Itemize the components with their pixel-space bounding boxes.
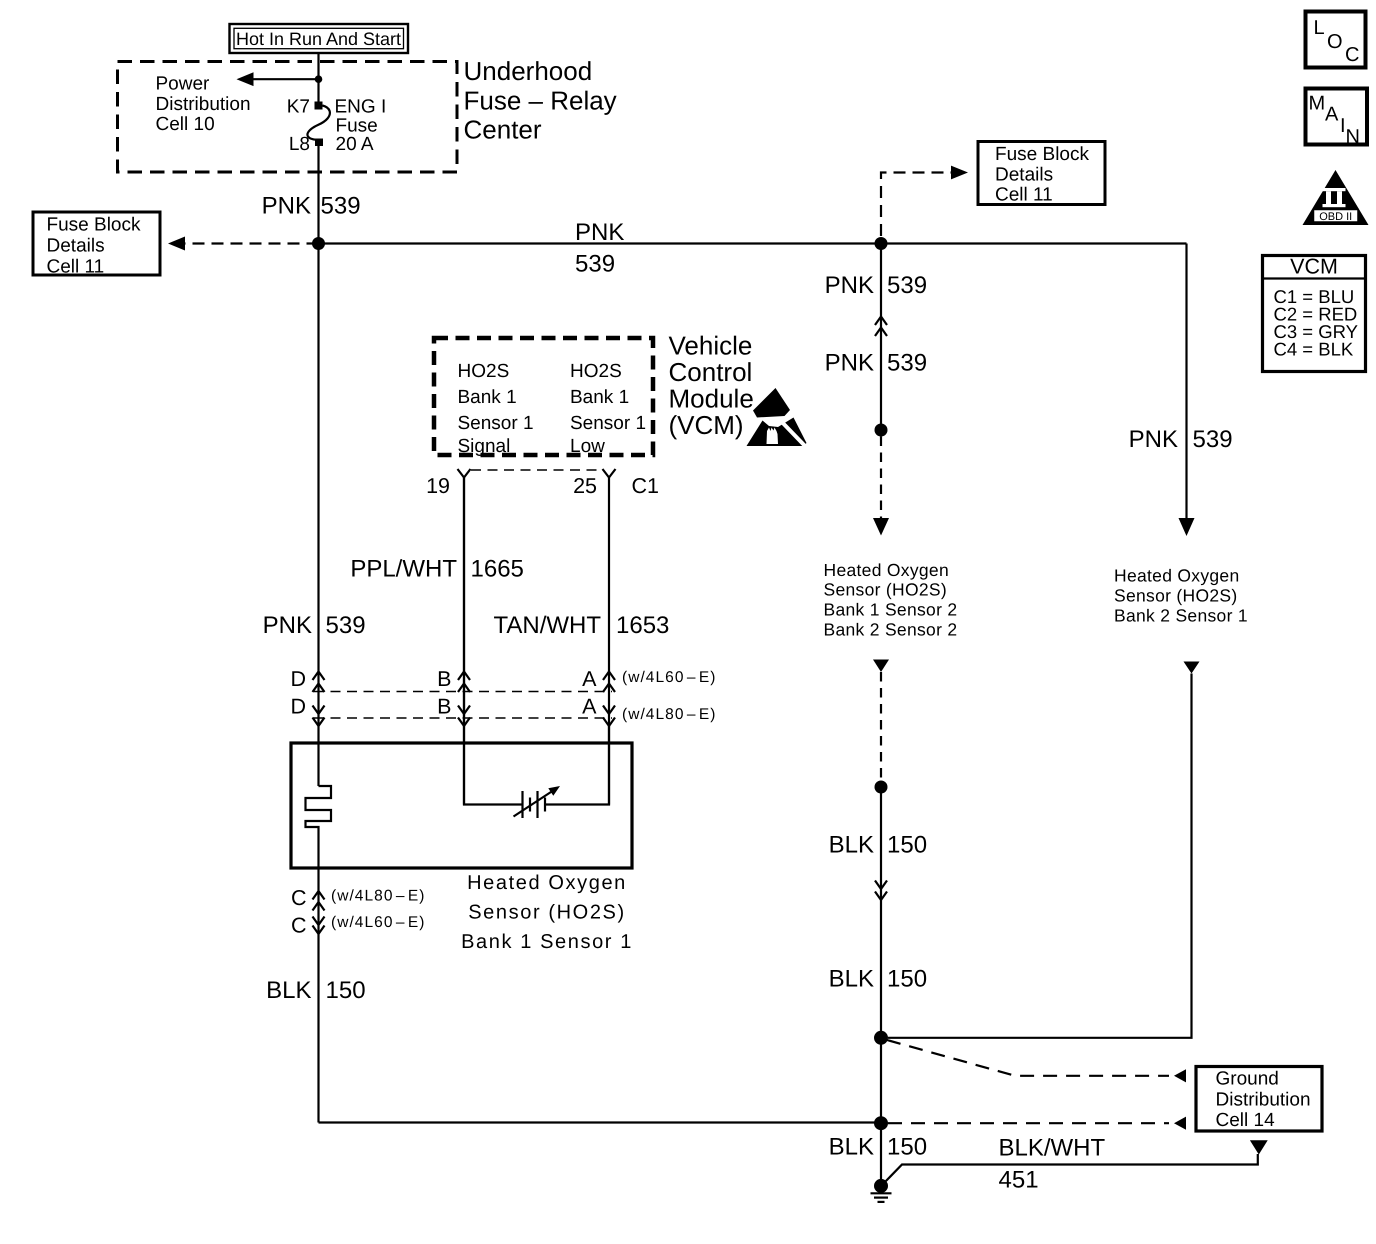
svg-text:Underhood: Underhood [464,56,593,86]
label: Power Distribution Cell 10 [156,74,251,136]
svg-text:C: C [291,914,307,938]
wire: PNK 539 mid drop [880,244,882,431]
label: VCM pin functions column 1 [458,361,534,457]
svg-text:Fuse Block: Fuse Block [47,214,141,235]
svg-text:Low: Low [570,436,605,457]
svg-text:L: L [1314,17,1327,39]
connector pin A (4L60) [603,672,615,693]
label: BLK 150 (left wire) [266,977,365,1004]
svg-text:L8: L8 [289,134,310,155]
svg-text:Heated Oxygen: Heated Oxygen [1114,566,1240,586]
wire: dashed to Ground Distribution (upper) [887,1040,1169,1076]
label: Heated Oxygen Sensor (HO2S) Bank 1 Sensor 2 Bank 2 Sensor 2 [824,560,958,640]
svg-text:Hot In Run And Start: Hot In Run And Start [236,29,401,49]
svg-text:Module: Module [669,384,754,414]
label: PPL/WHT 1665 [350,556,524,583]
inline connector on BLK run [875,881,887,901]
svg-text:Details: Details [995,165,1053,186]
svg-text:Bank 1: Bank 1 [570,387,629,408]
svg-text:539: 539 [1193,426,1233,453]
svg-text:Signal: Signal [458,436,511,457]
wire: dashed drop to HO2S bank1 sensor2 [880,437,882,520]
wire: HO2S ground lead down [317,868,319,1123]
label: Vehicle Control Module (VCM) [669,331,754,441]
svg-text:TAN/WHT: TAN/WHT [493,612,601,639]
svg-text:Sensor (HO2S): Sensor (HO2S) [1114,586,1238,606]
svg-text:PNK: PNK [263,612,312,639]
connector pin B (4L60) [458,672,470,693]
svg-text:C1: C1 [632,474,659,498]
svg-text:PNK: PNK [262,192,311,219]
svg-text:BLK: BLK [266,977,311,1004]
wire: dashed arrow to left Fuse Block Details [184,242,319,244]
box: HO2S Bank 1 Sensor 1 [291,743,632,868]
svg-text:PNK: PNK [1129,426,1178,453]
wire: dashed from sensor to BLK 150 [873,660,889,673]
svg-text:OBD II: OBD II [1319,211,1352,223]
node: junction left [312,237,325,250]
wire: fuse output down to main junction [317,146,319,244]
svg-text:PPL/WHT: PPL/WHT [350,556,457,583]
label: PNK 539 (left wire) [263,612,366,639]
svg-text:C: C [1345,44,1361,66]
svg-text:B: B [437,667,451,691]
wire: BLK 150 mid run [880,787,882,1038]
svg-text:Heated Oxygen: Heated Oxygen [467,872,627,894]
svg-text:Sensor (HO2S): Sensor (HO2S) [824,580,948,600]
connector pin B (4L80) [458,706,470,727]
connector row w/4L60-E dashed face [314,691,612,693]
svg-text:Sensor 1: Sensor 1 [458,413,534,434]
svg-text:150: 150 [887,832,927,859]
svg-text:(w/4L60 – E): (w/4L60 – E) [622,669,716,686]
svg-text:PNK: PNK [575,219,624,246]
label: VCM pin functions column 2 [570,361,646,457]
pin 25 connector fork [603,469,616,478]
svg-text:HO2S: HO2S [458,361,510,382]
svg-text:Cell 11: Cell 11 [995,185,1053,206]
svg-text:150: 150 [887,1134,927,1161]
svg-text:PNK: PNK [825,350,874,377]
wire: PNK 539 right drop [1185,244,1187,519]
label: Heated Oxygen Sensor (HO2S) Bank 1 Sensor 1 [461,872,633,953]
wire: arrow branch to Power Distribution [252,78,319,80]
legend: VCM connector colors [1263,255,1366,372]
connector pin D (4L60) [313,672,325,693]
label: BLK 150 (mid 1) [829,832,927,859]
fuse ENG I 20A (element curve) [307,106,329,140]
svg-text:25: 25 [573,474,597,498]
wire: dashed to Ground Distribution (lower) [888,1122,1169,1124]
svg-text:D: D [290,695,306,719]
label: Heated Oxygen Sensor (HO2S) Bank 2 Sensor 1 [1114,566,1248,626]
icon: OBD II triangle [1303,170,1369,225]
svg-text:451: 451 [999,1167,1039,1194]
svg-text:N: N [1346,126,1362,148]
label: PNK 539 (right) [1129,426,1233,453]
svg-text:PNK: PNK [825,272,874,299]
svg-text:BLK: BLK [829,832,874,859]
svg-text:Sensor 1: Sensor 1 [570,413,646,434]
svg-text:Cell 14: Cell 14 [1216,1110,1276,1131]
box: Fuse Block Details Cell 11 (left) [33,212,160,277]
box: Fuse Block Details Cell 11 (right) [978,142,1105,206]
svg-text:Bank 1 Sensor 2: Bank 1 Sensor 2 [824,600,958,620]
wire: BLK/WHT 451 [884,1154,1258,1183]
svg-text:BLK: BLK [829,1134,874,1161]
svg-text:Cell 11: Cell 11 [47,256,105,277]
svg-text:BLK: BLK [829,966,874,993]
svg-text:D: D [290,667,306,691]
connector pin D (4L80) [313,706,325,727]
node: junction at hot feed [315,75,323,83]
label: TAN/WHT 1653 [493,612,669,639]
node: junction mid [875,237,888,250]
svg-text:C4 = BLK: C4 = BLK [1274,339,1354,360]
wire: main horizontal PNK 539 bus [319,242,1187,244]
terminal L8 [315,139,323,147]
svg-text:539: 539 [321,192,361,219]
label: BLK 150 (mid 3) [829,1134,927,1161]
svg-text:Bank 2 Sensor 1: Bank 2 Sensor 1 [1114,606,1248,626]
svg-text:O: O [1327,31,1344,53]
wire: bottom run to ground junction [319,1121,882,1123]
connector row w/4L80-E dashed face [314,717,612,719]
svg-text:(VCM): (VCM) [669,410,744,440]
svg-text:19: 19 [426,474,450,498]
svg-text:VCM: VCM [1290,255,1338,279]
svg-text:Bank 1: Bank 1 [458,387,517,408]
svg-text:1665: 1665 [471,556,524,583]
label: PNK 539 (mid upper) [825,272,927,299]
svg-text:K7: K7 [287,96,310,117]
connector pin C (4L60) [313,917,325,935]
box: VCM (dashed) [434,338,653,455]
svg-text:Bank 1 Sensor 1: Bank 1 Sensor 1 [461,931,633,953]
box: Hot In Run And Start [230,24,409,53]
svg-text:539: 539 [887,272,927,299]
sensor element (variable source) inside HO2S [464,478,609,819]
connector C1 dashed face [471,469,602,471]
label: BLK 150 (mid 2) [829,966,927,993]
svg-text:150: 150 [887,966,927,993]
svg-text:Vehicle: Vehicle [669,331,753,361]
svg-text:Center: Center [464,115,542,145]
node: junction mid drop [875,424,888,437]
pin 19 connector fork [458,469,471,478]
wire: to ground G [880,1123,882,1186]
svg-text:539: 539 [326,612,366,639]
wire: hot feed into fuse box [317,53,319,102]
wire: dashed arrow to right Fuse Block Details [881,173,951,237]
svg-text:A: A [1325,104,1340,126]
node: junction BLK [875,781,888,794]
svg-text:20 A: 20 A [336,134,374,155]
svg-text:Ground: Ground [1216,1069,1279,1090]
svg-text:Details: Details [47,235,105,256]
svg-text:A: A [582,667,597,691]
label: Underhood Fuse-Relay Center [464,56,617,145]
svg-text:Cell 10: Cell 10 [156,114,215,135]
label: PNK 539 (top left) [262,192,361,219]
svg-text:Heated Oxygen: Heated Oxygen [824,560,950,580]
connector pin C (4L80) [313,891,325,911]
svg-text:539: 539 [887,350,927,377]
svg-text:Bank 2 Sensor 2: Bank 2 Sensor 2 [824,620,958,640]
svg-text:Distribution: Distribution [156,94,251,115]
svg-text:(w/4L60 – E): (w/4L60 – E) [331,914,425,931]
label: BLK/WHT 451 [999,1135,1106,1194]
svg-text:HO2S: HO2S [570,361,622,382]
svg-text:A: A [582,695,597,719]
box: Underhood Fuse-Relay Center (dashed) [118,62,458,173]
wire: right sensor ground lead [1184,662,1200,674]
svg-text:Control: Control [669,357,753,387]
svg-text:539: 539 [575,251,615,278]
svg-text:ENG I: ENG I [335,96,387,117]
svg-text:(w/4L80 – E): (w/4L80 – E) [622,706,716,723]
icon: LOC box [1306,12,1366,68]
terminal K7 [315,102,323,110]
icon: MAIN box [1306,89,1368,149]
wire: PNK 539 left drop [317,244,319,787]
heater element inside HO2S [306,786,332,868]
ground G [871,1179,892,1202]
svg-text:Distribution: Distribution [1216,1090,1311,1111]
svg-text:Power: Power [156,74,211,95]
node: junction with right sensor lead [874,1031,888,1045]
svg-text:C: C [291,886,307,910]
svg-text:BLK/WHT: BLK/WHT [999,1135,1106,1162]
svg-text:1653: 1653 [616,612,669,639]
svg-text:Fuse Block: Fuse Block [995,144,1089,165]
svg-text:150: 150 [326,977,366,1004]
label: PNK 539 (on horizontal bus) [575,219,624,277]
icon: ESD sensitive symbol [747,388,807,447]
wire: PPL/WHT 1665 from pin 19 [463,478,465,805]
inline connector on mid drop [875,317,887,337]
svg-text:B: B [437,695,451,719]
svg-text:Fuse – Relay: Fuse – Relay [464,85,617,115]
wire: TAN/WHT 1653 from pin 25 [608,478,610,805]
connector pin A (4L80) [603,706,615,727]
wire: BLK 150 to lower junction [880,1038,882,1123]
node: junction bottom [874,1116,888,1130]
svg-text:Sensor (HO2S): Sensor (HO2S) [468,902,626,924]
label: PNK 539 (mid lower) [825,350,927,377]
svg-text:(w/4L80 – E): (w/4L80 – E) [331,888,425,905]
box: Ground Distribution Cell 14 [1196,1067,1322,1132]
